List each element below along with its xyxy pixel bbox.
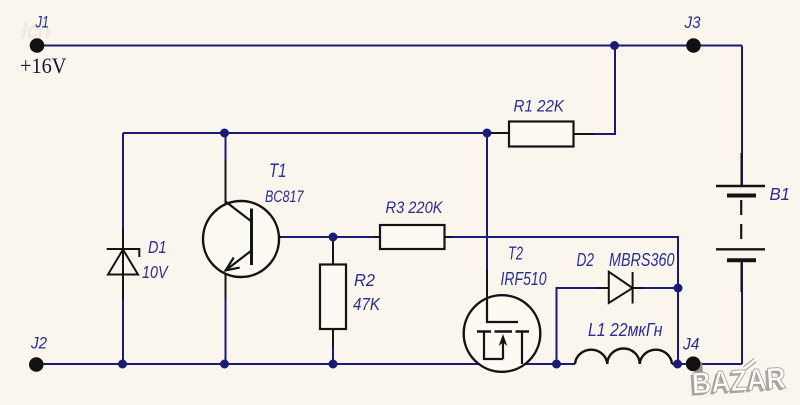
- junction bottom rail / T1 emitter: [220, 360, 229, 369]
- watermark BAZAR shadow blob: [690, 362, 703, 373]
- svg-text:IRF510: IRF510: [501, 269, 547, 289]
- battery B1: [716, 153, 765, 292]
- svg-text:R3 220K: R3 220K: [386, 199, 444, 217]
- svg-text:10V: 10V: [142, 262, 169, 282]
- resistor R1: [509, 122, 574, 147]
- terminal J2: [29, 357, 44, 372]
- resistor R2: [320, 265, 346, 330]
- wire D2 cathode to J4 node: [633, 287, 678, 289]
- wire right rail lower (B1 minus to bottom rail): [741, 261, 743, 365]
- transistor T1 collector inside: [226, 202, 252, 222]
- wire bottom rail left (J2 to L1 left): [37, 363, 576, 365]
- svg-text:BAZAR: BAZAR: [691, 362, 787, 401]
- svg-text:D1: D1: [148, 237, 167, 257]
- wire T1 collector lead: [225, 133, 227, 160]
- wire R3 right to J4 node: [445, 237, 679, 364]
- mosfet T2 body: [464, 295, 541, 372]
- junction node-A / T1 collector: [220, 129, 229, 138]
- svg-text:+16V: +16V: [20, 53, 67, 78]
- wire T1 base to R3: [252, 236, 281, 238]
- junction bottom rail / D2 anode: [552, 360, 561, 369]
- transistor T1 body: [203, 201, 279, 277]
- svg-text:B1: B1: [770, 184, 791, 204]
- terminal J4 dot over watermark: [686, 357, 701, 372]
- watermark BAZAR: [688, 358, 787, 402]
- resistor R3: [380, 225, 445, 249]
- mosfet T2 source leg: [484, 332, 503, 360]
- wire top rail (+16V net, J1 to right rail): [44, 45, 742, 47]
- junction bottom rail / R2: [329, 360, 338, 369]
- junction node-A / R1 left / T2 gate: [483, 129, 492, 138]
- mosfet T2 body arrow: [502, 338, 504, 359]
- junction bottom rail / L1 right: [673, 360, 682, 369]
- svg-text:R2: R2: [354, 270, 375, 290]
- zener diode D1: [107, 249, 140, 275]
- svg-text:L1 22мкГн: L1 22мкГн: [588, 320, 663, 340]
- mosfet T2 drain leg: [521, 332, 523, 365]
- wire R2 branch: [332, 237, 334, 364]
- wire bottom rail right (L1 right to right rail): [672, 363, 742, 365]
- junction top rail / R1: [610, 41, 619, 50]
- svg-text:J1: J1: [35, 14, 49, 32]
- diode D2: [609, 272, 633, 304]
- svg-text:D2: D2: [577, 250, 595, 270]
- wire T1 emitter lead: [225, 272, 227, 298]
- wire node-A horizontal (D1/T1-collector/R1-left/T2-gate line): [123, 132, 487, 134]
- terminal J1: [30, 38, 45, 53]
- transistor T1 emitter inside with arrow: [226, 251, 252, 271]
- wire R1 left lead: [487, 132, 509, 134]
- mosfet T2 gate inside: [487, 298, 518, 322]
- svg-text:47K: 47K: [353, 294, 381, 314]
- mosfet T2 channel dashes: [477, 330, 529, 332]
- svg-text:T2: T2: [508, 244, 523, 264]
- svg-text:J3: J3: [684, 14, 702, 32]
- svg-text:J2: J2: [30, 335, 47, 353]
- svg-text:J4: J4: [682, 336, 699, 354]
- svg-text:BC817: BC817: [265, 187, 304, 206]
- wire T2 gate lead: [486, 133, 488, 270]
- transistor T1 base bar: [250, 209, 253, 266]
- junction D2 cathode / J4 riser: [674, 284, 683, 293]
- wire R1 right lead up to top rail: [573, 46, 615, 135]
- terminal J3: [686, 38, 701, 53]
- svg-text:T1: T1: [269, 161, 287, 182]
- junction bottom rail / D1: [118, 360, 127, 369]
- wire D2 anode branch: [557, 288, 609, 364]
- wire D1 branch: [122, 133, 124, 364]
- inductor L1: [575, 349, 672, 365]
- svg-text:MBRS360: MBRS360: [609, 250, 675, 270]
- junction T1 base / R2 / R3: [329, 233, 338, 242]
- terminal J4: [686, 357, 701, 372]
- wire right rail upper (to B1 plus): [741, 46, 743, 187]
- svg-text:R1 22K: R1 22K: [514, 98, 565, 116]
